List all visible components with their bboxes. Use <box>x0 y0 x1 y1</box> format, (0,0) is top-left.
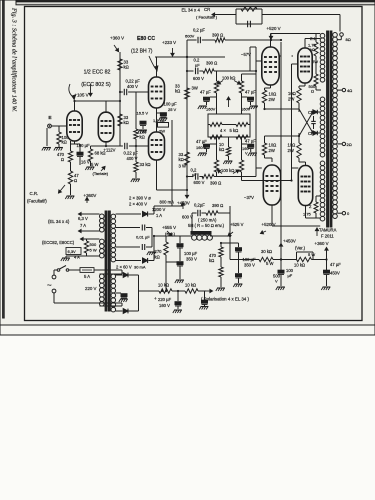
diode HV2 <box>143 258 148 263</box>
wire cathode V6 <box>305 162 307 166</box>
svg-text:2 × 390 V ø: 2 × 390 V ø <box>129 196 151 201</box>
svg-text:600 V: 600 V <box>194 180 205 185</box>
svg-text:(EL 34 x 4): (EL 34 x 4) <box>48 219 70 224</box>
PT HV coil <box>111 214 116 262</box>
wire grid V3 <box>255 47 257 177</box>
svg-text:10 kΩ: 10 kΩ <box>185 283 196 288</box>
svg-text:kΩ: kΩ <box>124 65 129 70</box>
resistor 10k Ver <box>297 257 312 261</box>
ground cathode <box>67 195 75 197</box>
OPT sec tap 4ohm <box>337 89 342 91</box>
svg-text:390 Ω: 390 Ω <box>210 181 221 186</box>
wire SRPP middle <box>156 108 158 132</box>
svg-text:25 V: 25 V <box>168 107 177 112</box>
pentode V4 EL34 <box>298 48 312 83</box>
svg-text:(ECC 802 S): (ECC 802 S) <box>81 82 111 88</box>
wire V2a plate to rail <box>156 57 158 77</box>
svg-text:10Ω: 10Ω <box>269 92 277 97</box>
bias 470k <box>220 243 222 247</box>
svg-text:220 µF: 220 µF <box>158 297 172 302</box>
svg-text:2 × 400 V: 2 × 400 V <box>129 202 147 207</box>
cap 47uF 160V upR <box>242 96 248 98</box>
svg-text:kΩ: kΩ <box>179 157 184 162</box>
resistor 33k 3W upper <box>185 88 190 99</box>
svg-text:350 V: 350 V <box>186 257 197 262</box>
pentode V5 EL34 <box>263 165 280 205</box>
resistor 100k upB <box>239 81 243 93</box>
svg-text:kΩ: kΩ <box>175 89 180 94</box>
snubber <box>192 212 197 214</box>
svg-text:10Ω: 10Ω <box>288 91 296 96</box>
ground 68k <box>87 166 95 168</box>
node 360V <box>326 248 328 270</box>
resistor 100k loA <box>214 160 218 172</box>
cap 47uF 450V <box>324 270 330 273</box>
svg-text:5 W: 5 W <box>308 252 315 257</box>
svg-text:390 Ω: 390 Ω <box>212 203 223 208</box>
svg-text:5H ( R = 50 Ω env.): 5H ( R = 50 Ω env.) <box>188 223 225 228</box>
resistor 33k 3W lower <box>185 152 190 165</box>
wire grid V6 <box>242 180 292 182</box>
svg-text:(Ver.): (Ver.) <box>295 246 306 251</box>
cathode cross wires <box>265 108 300 110</box>
svg-text:390 Ω: 390 Ω <box>206 61 217 66</box>
resistor 10 2W upL <box>262 90 266 103</box>
resistor 33k lower <box>118 114 122 126</box>
svg-text:160 V: 160 V <box>196 145 207 150</box>
svg-text:+525 V: +525 V <box>230 222 244 227</box>
gnd mid bias <box>148 251 156 253</box>
resistor 68k 5W <box>88 149 92 161</box>
svg-text:1,1 kΩ: 1,1 kΩ <box>153 118 165 123</box>
svg-text:+: + <box>154 296 157 301</box>
ground 33k T4 <box>132 178 140 180</box>
PT heater coil 6.3V7A <box>100 214 105 232</box>
arrow 450V top <box>182 203 184 210</box>
svg-text:100 µF: 100 µF <box>77 143 91 148</box>
svg-text:µF: µF <box>195 63 200 68</box>
svg-text:kΩ: kΩ <box>209 258 214 263</box>
svg-text:100 µF: 100 µF <box>243 257 257 262</box>
wire 33k plate load <box>119 52 121 146</box>
wire grid V5 <box>256 167 262 169</box>
wire input to grid <box>59 125 67 127</box>
arrow callout V1b <box>90 84 92 96</box>
svg-text:350 V: 350 V <box>244 263 255 268</box>
svg-text:6,3V: 6,3V <box>68 249 77 254</box>
svg-text:2W: 2W <box>288 97 294 102</box>
bias ecap tap <box>116 292 121 294</box>
arrow +105V <box>69 84 72 96</box>
svg-text:47 µF: 47 µF <box>245 139 256 144</box>
CR diode upper <box>313 110 317 114</box>
OPT primary bot coil <box>320 161 325 221</box>
wire cathode V5 <box>271 158 273 162</box>
svg-text:600 V: 600 V <box>182 215 193 220</box>
svg-text:+360 V: +360 V <box>315 241 329 246</box>
svg-text:100 kΩ: 100 kΩ <box>222 76 235 81</box>
wire plate V4 <box>304 39 306 49</box>
coupling cap2 0.22uF <box>124 143 126 149</box>
PT heater coil 6.3V4A <box>100 239 105 258</box>
OPT core <box>327 31 329 227</box>
schematic frame <box>25 7 363 321</box>
svg-text:100 kΩ: 100 kΩ <box>221 168 234 173</box>
box 6.3V 4A <box>66 248 81 255</box>
svg-text:Ω: Ω <box>61 157 64 162</box>
wire plate V5 <box>271 205 273 226</box>
svg-text:C.R.: C.R. <box>30 191 39 196</box>
svg-text:+105 V: +105 V <box>75 93 89 98</box>
svg-text:450V: 450V <box>330 271 340 276</box>
svg-text:4 ×: 4 × <box>220 128 226 133</box>
triode V2b E80CC <box>149 132 165 160</box>
svg-text:5 W: 5 W <box>91 162 98 167</box>
left page edge line <box>3 0 5 318</box>
svg-text:5 A: 5 A <box>84 274 90 279</box>
bias diode top <box>116 274 123 276</box>
cap 220uF 160V <box>177 291 179 301</box>
svg-text:100 µF: 100 µF <box>184 251 198 256</box>
grid leak T4 33k <box>135 146 137 162</box>
svg-text:3 W: 3 W <box>179 164 186 169</box>
reservoir node <box>154 235 192 237</box>
OPT primary taps <box>316 89 320 91</box>
node 450V <box>280 244 282 251</box>
svg-text:47 µF: 47 µF <box>330 262 341 267</box>
resistor 10 2W loL <box>262 143 266 155</box>
svg-text:CR: CR <box>308 110 314 115</box>
wire V1b out row <box>91 145 123 147</box>
svg-text:Z.1: Z.1 <box>310 36 317 41</box>
svg-text:600 V: 600 V <box>193 76 204 81</box>
arrow CR top <box>212 14 233 16</box>
wire cathode down <box>70 184 72 195</box>
resistor 100k grid <box>57 132 61 144</box>
wire cathode V4 <box>304 83 306 86</box>
wire screen dropper <box>186 40 188 190</box>
svg-text:160 V: 160 V <box>159 303 170 308</box>
pentode V3 EL34 <box>262 47 279 85</box>
resistor 100k upA <box>214 81 218 93</box>
svg-text:V: V <box>245 151 248 156</box>
HV mid tap <box>116 227 140 229</box>
svg-text:kΩ: kΩ <box>155 255 160 260</box>
cap 100uF 500V <box>280 260 282 271</box>
svg-text:2W: 2W <box>288 148 294 153</box>
svg-text:+360 V: +360 V <box>110 36 124 41</box>
svg-text:47 µF: 47 µF <box>245 90 256 95</box>
svg-text:Ω: Ω <box>311 89 314 94</box>
svg-text:47 µF: 47 µF <box>200 90 211 95</box>
heater wires 7A <box>78 213 100 215</box>
wire plate V6 <box>305 206 307 219</box>
resistor 470 cathode <box>68 151 72 162</box>
svg-text:(Tantale): (Tantale) <box>93 171 109 176</box>
diode HV1 <box>143 211 148 216</box>
resistor 390 lower <box>202 174 214 178</box>
wire V2b cathode <box>156 160 158 190</box>
svg-text:600V: 600V <box>185 34 195 39</box>
svg-text:10 kΩ: 10 kΩ <box>158 283 169 288</box>
svg-text:+360V: +360V <box>84 193 97 198</box>
svg-text:4 A: 4 A <box>74 255 80 260</box>
svg-text:6,3 V: 6,3 V <box>78 216 88 221</box>
input jack E <box>48 124 52 128</box>
fuse 5A <box>80 268 94 273</box>
svg-text:+555 V: +555 V <box>162 225 176 230</box>
bias divider 270k <box>165 236 167 242</box>
box 4x5k <box>208 114 250 137</box>
OPT sec tap 2ohm <box>337 143 342 145</box>
svg-text:1 A: 1 A <box>156 213 162 218</box>
svg-text:+450V: +450V <box>283 239 296 244</box>
resistor 10 2W loR <box>297 143 301 158</box>
svg-text:+520 V: +520 V <box>267 26 281 31</box>
cap tantale <box>140 121 146 124</box>
resistor 500 5W <box>84 241 88 253</box>
svg-text:(12 BH 7): (12 BH 7) <box>131 49 153 55</box>
svg-text:8Ω: 8Ω <box>346 37 351 42</box>
triode V2a E80CC <box>149 77 165 108</box>
svg-text:kΩ: kΩ <box>124 120 129 125</box>
capacitor 100uF 16V <box>77 152 83 155</box>
OPT primary top coil <box>320 33 325 82</box>
ground grid resistor <box>55 147 63 149</box>
caps 100uF 350V <box>179 236 181 243</box>
svg-text:0,22 µF: 0,22 µF <box>126 79 141 84</box>
OPT sec tap 0 <box>337 212 342 214</box>
svg-text:10Ω: 10Ω <box>288 143 296 148</box>
svg-text:(ECC82, E80CC): (ECC82, E80CC) <box>42 240 75 245</box>
svg-text:Ω: Ω <box>74 178 77 183</box>
svg-text:2 × 60 V: 2 × 60 V <box>116 265 132 270</box>
svg-text:kΩ: kΩ <box>62 140 67 145</box>
triode V1a ECC82 <box>67 111 82 141</box>
svg-text:2W: 2W <box>269 148 275 153</box>
svg-text:kΩ: kΩ <box>219 147 224 152</box>
OPT primary mid coil <box>320 97 325 157</box>
svg-text:0,2µF: 0,2µF <box>194 203 205 208</box>
svg-text:160V: 160V <box>241 107 251 112</box>
svg-text:100 µF: 100 µF <box>164 102 178 107</box>
svg-text:2W: 2W <box>312 59 318 64</box>
svg-text:kΩ: kΩ <box>310 47 315 52</box>
wire coupling row 92 <box>120 91 123 93</box>
caps 100uF 350V second <box>238 243 240 247</box>
heater wires 4A <box>80 238 100 240</box>
svg-text:5 W: 5 W <box>266 261 273 266</box>
choke 5H <box>191 232 211 235</box>
svg-text:µF: µF <box>288 273 293 278</box>
coupling C4 0.2uF lower <box>187 176 194 178</box>
wire plates bus <box>74 101 76 111</box>
resistor 30k 5W <box>259 257 273 261</box>
scan top edge <box>0 0 375 330</box>
ground input jack <box>43 147 51 149</box>
svg-text:160V: 160V <box>206 107 216 112</box>
svg-text:2W: 2W <box>269 97 275 102</box>
bias rect wires <box>138 275 140 311</box>
resistors in box bottom <box>210 135 222 139</box>
svg-text:0,2 µF: 0,2 µF <box>193 28 205 33</box>
svg-text:800 mA: 800 mA <box>160 200 175 205</box>
cap 47uF 160V loL <box>216 137 218 160</box>
bias diode bottom <box>116 310 123 312</box>
svg-text:16.5 V: 16.5 V <box>137 111 149 116</box>
svg-text:10Ω: 10Ω <box>269 143 277 148</box>
svg-text:30 kΩ: 30 kΩ <box>261 249 272 254</box>
wire V1a cathode <box>70 141 72 151</box>
rail 233V <box>155 56 225 58</box>
svg-text:4Ω: 4Ω <box>347 88 352 93</box>
svg-text:V: V <box>275 279 278 284</box>
svg-text:1/2 ECC 82: 1/2 ECC 82 <box>84 70 111 76</box>
svg-text:33 kΩ: 33 kΩ <box>140 162 151 167</box>
B+ rail wire <box>230 259 259 261</box>
svg-text:500: 500 <box>90 242 97 247</box>
svg-text:5 kΩ: 5 kΩ <box>230 128 239 133</box>
svg-text:220 V: 220 V <box>85 286 97 291</box>
svg-text:F 2011: F 2011 <box>321 234 334 239</box>
cap 47uF 160V loR <box>241 137 243 160</box>
network CR box <box>233 14 236 16</box>
wire cathode V3 <box>270 85 272 88</box>
resistors in box top <box>210 123 222 127</box>
svg-text:µF: µF <box>192 172 197 177</box>
pentode V6 EL34 <box>298 166 312 206</box>
svg-text:68 kΩ: 68 kΩ <box>95 151 106 156</box>
mains terminals <box>52 275 56 279</box>
PT bias coil <box>111 274 116 312</box>
OPT sec tap 8ohm <box>337 39 341 41</box>
svg-text:400 V: 400 V <box>127 84 138 89</box>
bias cross wire <box>166 261 180 263</box>
svg-text:~: ~ <box>47 281 52 290</box>
HV mid tap2 <box>116 246 140 248</box>
resistor 10k mid <box>228 137 230 147</box>
svg-text:Fig. 3 : Schéma de l’amplifica: Fig. 3 : Schéma de l’amplificateur 140 W… <box>11 7 18 112</box>
arrow balance up <box>228 97 230 107</box>
HV wire top <box>116 213 141 215</box>
svg-text:47 µF: 47 µF <box>196 139 207 144</box>
svg-text:30 mA: 30 mA <box>134 265 146 270</box>
coupling C3 0.2uF upper <box>187 70 194 72</box>
cap 100uF 25V <box>157 112 161 114</box>
grid leak column x136 <box>135 92 137 129</box>
svg-text:390 Ω: 390 Ω <box>212 33 223 38</box>
wire grid V4 <box>291 64 293 181</box>
wire CR to sec <box>262 14 340 16</box>
junction dots <box>119 91 121 93</box>
HV wire bottom <box>116 260 141 262</box>
PT core <box>105 211 107 311</box>
resistor 100k loB <box>239 160 243 172</box>
bias rail <box>148 290 159 292</box>
wire choke down <box>229 236 231 260</box>
RC row y40 <box>187 39 197 41</box>
resistor 47 feedback <box>68 171 72 184</box>
svg-text:E80 CC: E80 CC <box>137 36 155 42</box>
wire plate V3 <box>270 34 272 48</box>
zobel bottom <box>315 213 317 218</box>
svg-text:10 kΩ: 10 kΩ <box>294 263 305 268</box>
svg-text:TAMURA: TAMURA <box>319 228 337 233</box>
mains wire bottom <box>53 293 55 303</box>
resistor 390 upper <box>203 69 214 73</box>
cap 47uF 160V upL <box>210 96 217 98</box>
screen feed vertical <box>280 42 282 260</box>
resistor 10 2W upR <box>297 88 301 103</box>
resistor 33k plate <box>118 59 122 70</box>
PT primary coil <box>100 274 105 306</box>
svg-text:CR: CR <box>204 7 210 12</box>
svg-text:(Facultatif): (Facultatif) <box>27 199 47 204</box>
svg-text:5 W: 5 W <box>90 248 97 253</box>
mains wire top <box>121 270 123 274</box>
svg-text:2W: 2W <box>159 128 165 133</box>
svg-text:2Ω: 2Ω <box>347 142 352 147</box>
svg-text:3W: 3W <box>192 86 198 91</box>
svg-text:7 A: 7 A <box>80 223 86 228</box>
svg-text:kΩ: kΩ <box>140 135 145 140</box>
ground heater <box>62 257 70 259</box>
CR diode lower <box>313 131 317 135</box>
svg-text:( 250 mA): ( 250 mA) <box>198 218 217 223</box>
zobel top <box>315 34 317 43</box>
cap CR middle <box>311 120 316 122</box>
OPT secondary coil <box>333 33 338 219</box>
svg-text:( Polarisation 4 x EL 34 ): ( Polarisation 4 x EL 34 ) <box>201 297 249 302</box>
arrow CR <box>59 185 66 193</box>
svg-text:EL 34 x 4: EL 34 x 4 <box>182 8 201 13</box>
cap gnd right of rail <box>204 291 206 300</box>
svg-text:−37V: −37V <box>244 195 254 200</box>
mains switch <box>53 270 55 275</box>
svg-text:1,75: 1,75 <box>303 212 312 217</box>
svg-text:CR: CR <box>308 131 314 136</box>
wire B+ dropper <box>171 120 173 206</box>
svg-text:+520 V: +520 V <box>262 222 276 227</box>
resistor 1.1k 2W <box>158 123 169 128</box>
svg-text:0,01 µF: 0,01 µF <box>136 235 150 240</box>
svg-text:+233 V: +233 V <box>162 40 176 45</box>
triode V1b ECC82 <box>98 112 113 142</box>
